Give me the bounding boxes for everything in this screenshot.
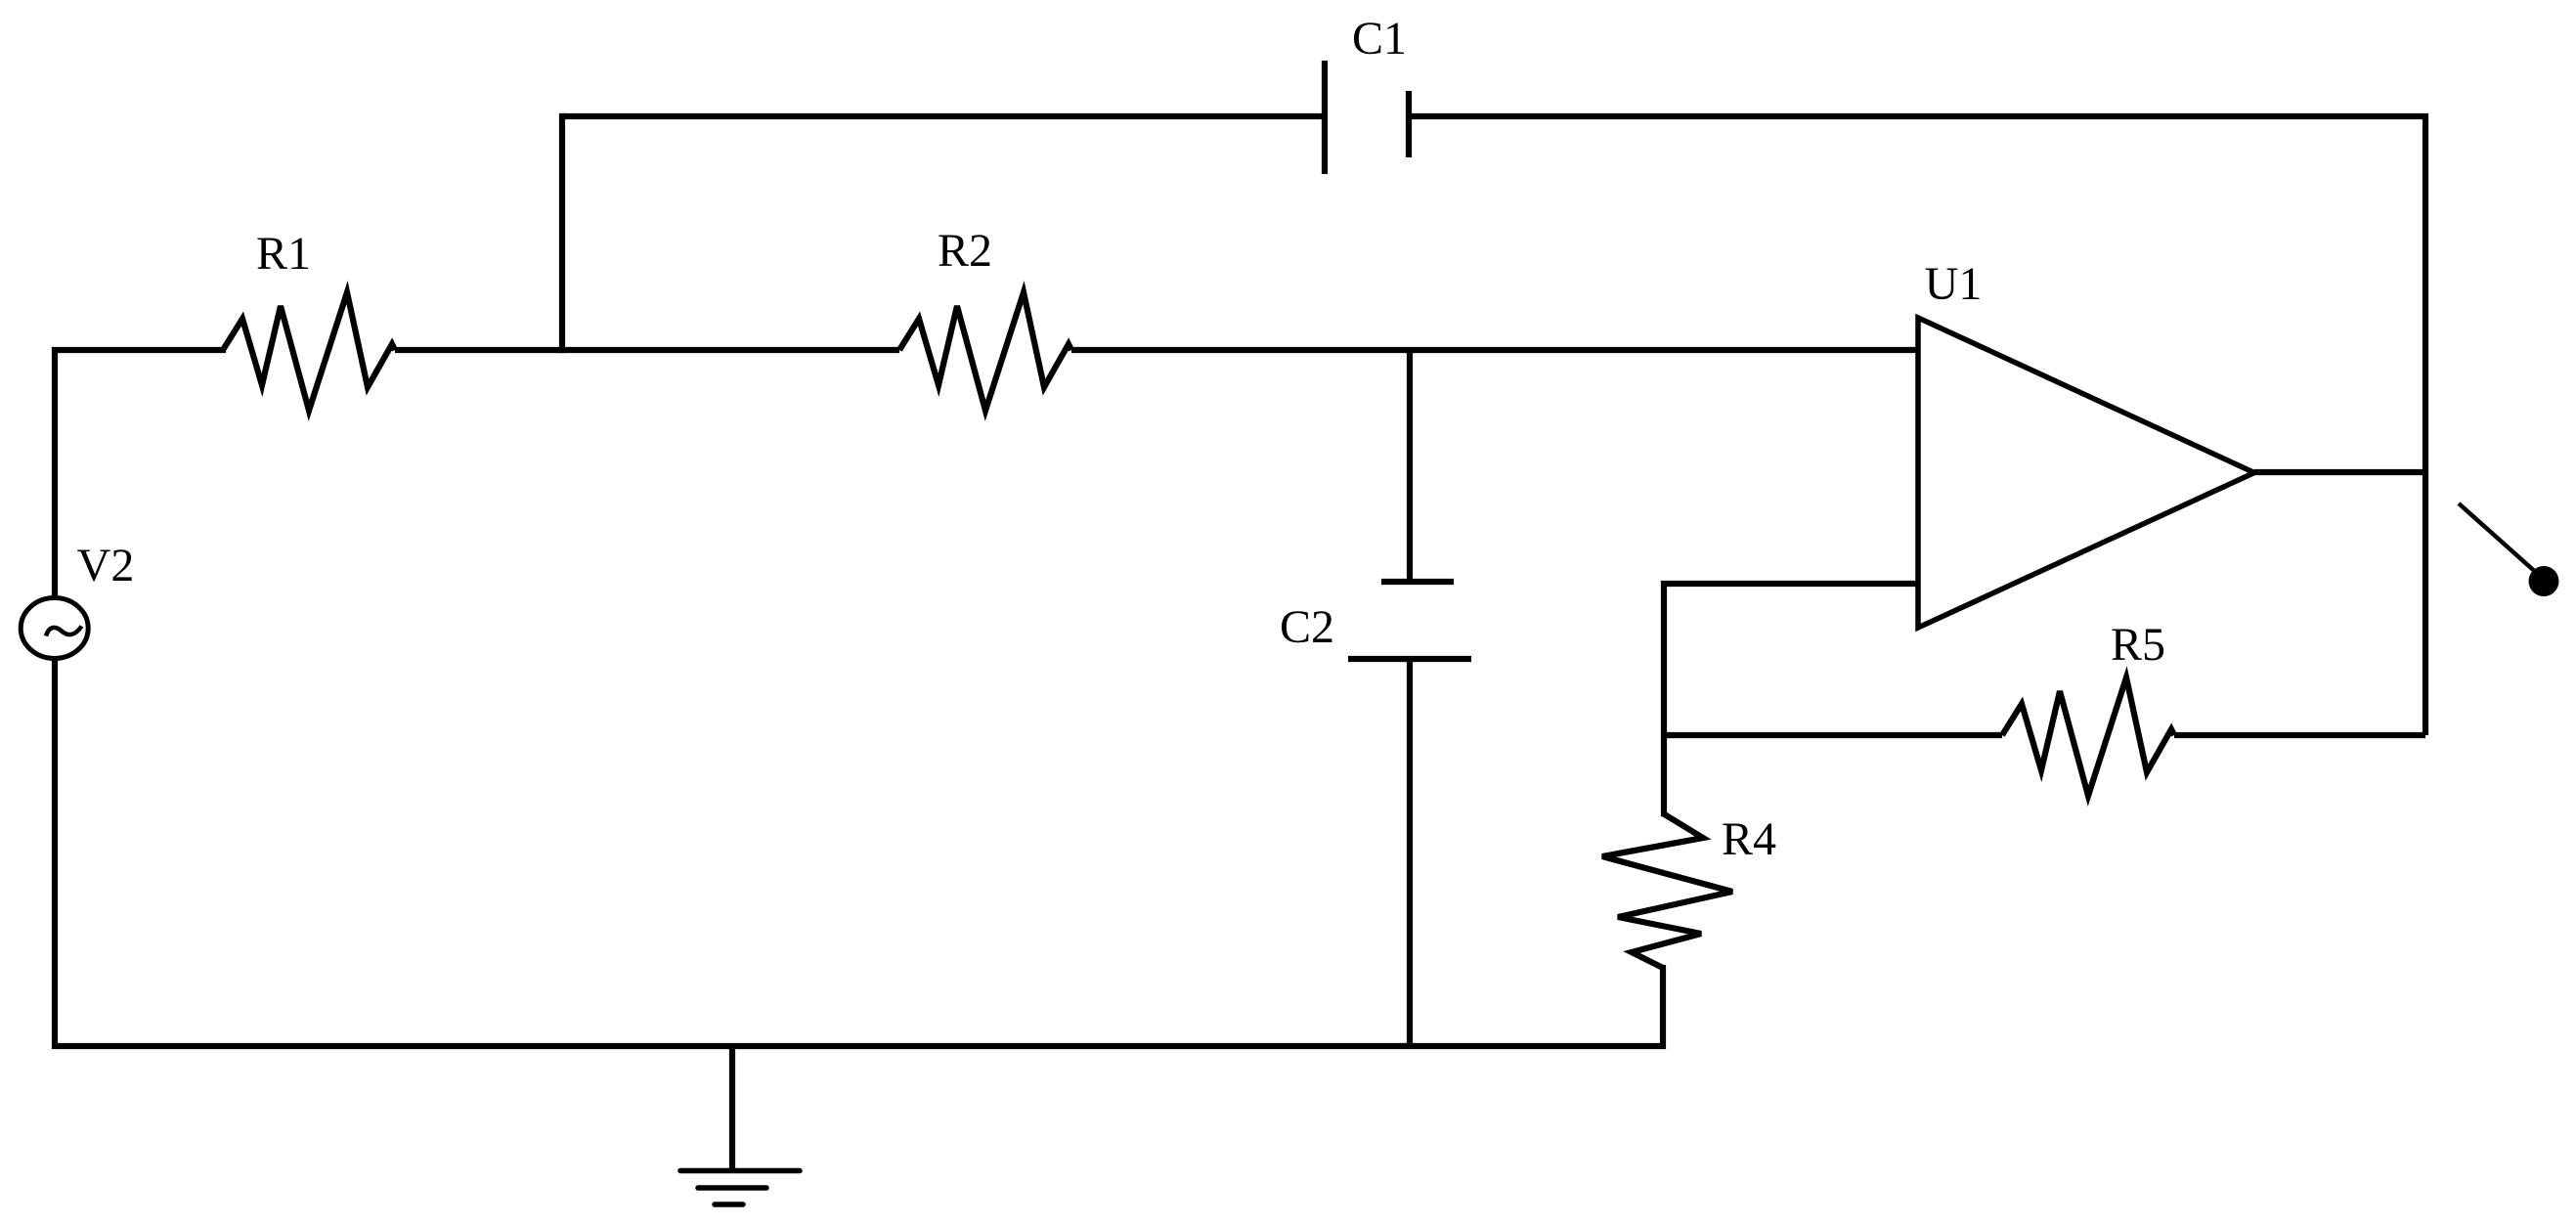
resistor R1 [223,292,395,411]
capacitor C2 bottom plate [1348,656,1471,662]
resistor R2 [899,292,1071,411]
svg-text:U1: U1 [1925,258,1983,310]
op-amp U1 [1918,318,2254,628]
svg-text:V2: V2 [77,540,135,591]
svg-text:C2: C2 [1280,601,1334,653]
wire: V2 top to main wire left, to R1 [55,350,223,595]
wire: inv node to R5 [1664,732,2002,738]
wire: inverting input from op-amp, down to R4 top [1664,584,1918,813]
output probe [2459,503,2559,596]
wire: V2 bottom, bottom rail, up to R4 bottom [55,660,1663,1046]
wire: node B down to C2 [1407,350,1413,585]
svg-text:R4: R4 [1722,813,1776,865]
capacitor C2 top plate [1381,579,1454,585]
svg-text:R1: R1 [256,228,311,280]
svg-text:R2: R2 [938,225,992,277]
wire: R2 to op-amp (junction at node B x=1442) [1071,347,1918,353]
voltage source V2 [21,598,88,659]
svg-text:C1: C1 [1352,13,1407,65]
svg-text:R5: R5 [2111,619,2165,671]
wire: top wire left to C1 [562,113,1325,119]
wire: C1 to top-right corner, down right rail to R5 [1409,116,2425,735]
wire: C2 bottom to bottom rail [1407,659,1413,1046]
wire: ground stub [729,1046,735,1170]
ground [680,1171,800,1205]
wire: R1 to R2 (junction at node A x=575) [395,347,899,353]
capacitor C1 right plate [1406,91,1412,157]
wire: node A vertical up to top wire [559,116,565,350]
capacitor C1 left plate [1322,61,1328,174]
wire: op-amp output to right rail [2254,469,2425,475]
resistor R5 [2002,678,2174,796]
wire: R5 to right rail [2174,732,2425,738]
resistor R4 [1602,813,1732,968]
